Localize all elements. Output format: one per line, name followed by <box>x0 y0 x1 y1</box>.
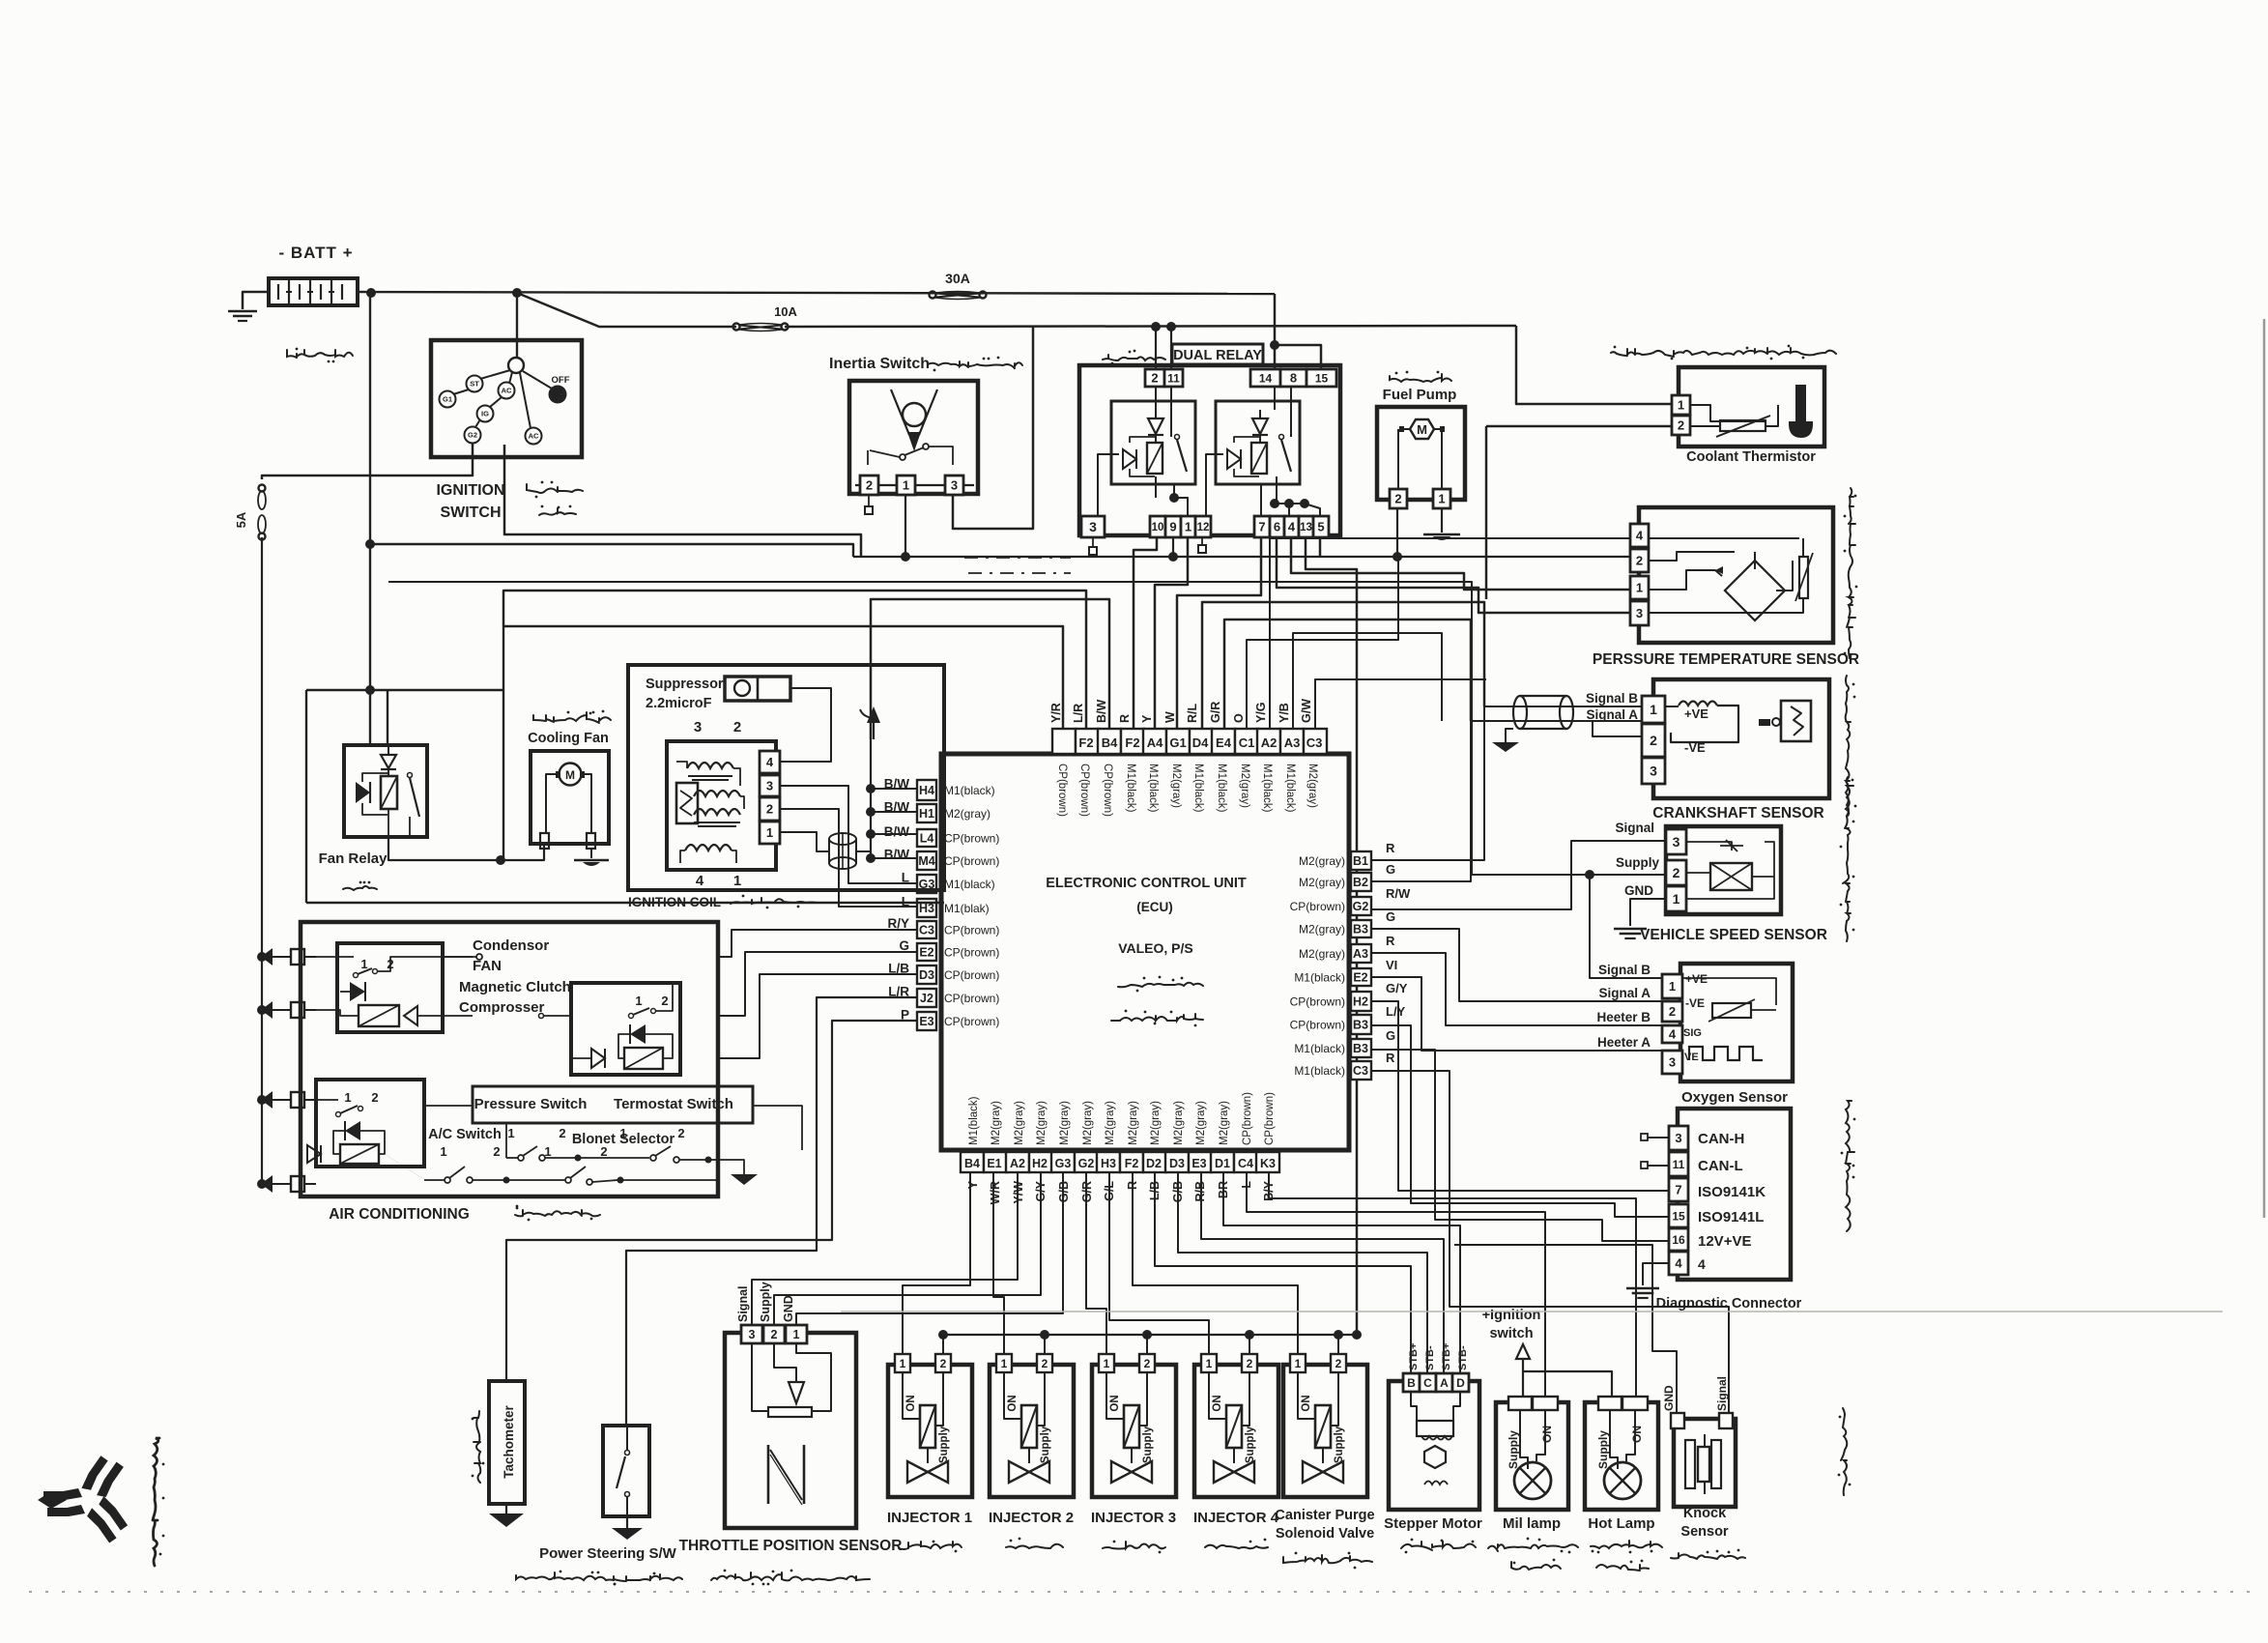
AC relay internals <box>307 1090 385 1164</box>
fan relay internals <box>356 745 419 837</box>
thermometer glyph <box>1789 385 1813 438</box>
pin 2 of crankshaft sensor <box>1642 724 1665 757</box>
svg-text:A4: A4 <box>1147 735 1163 750</box>
svg-text:B4: B4 <box>964 1157 980 1170</box>
svg-text:AC: AC <box>502 387 512 395</box>
svg-text:A: A <box>1440 1376 1449 1390</box>
svg-text:Supply: Supply <box>1507 1430 1520 1469</box>
svg-text:D4: D4 <box>1192 735 1209 750</box>
svg-text:2: 2 <box>866 478 873 493</box>
svg-text:O: O <box>1232 713 1246 723</box>
ECU right pin column <box>1351 851 1371 1080</box>
suppressor label <box>646 677 724 711</box>
wire A3 to oxygen heeter B <box>1371 953 1662 1025</box>
wire ECU C4 to mil lamp ON <box>1247 1172 1545 1397</box>
svg-text:2: 2 <box>1678 418 1684 433</box>
ECU right inner labels <box>1290 854 1345 1078</box>
ignition switch label <box>436 482 504 521</box>
ground tachometer <box>489 1504 524 1527</box>
svg-text:Comprosser: Comprosser <box>459 999 545 1016</box>
termostat contacts <box>578 1126 718 1164</box>
svg-text:SWITCH: SWITCH <box>440 504 501 521</box>
svg-text:M2(gray): M2(gray) <box>1306 764 1318 808</box>
pin 1 of coolant thermistor <box>1672 395 1690 415</box>
pins 10 9 1 12 of dual relay <box>1150 516 1211 537</box>
PT sensor label <box>1593 651 1859 668</box>
svg-text:B3: B3 <box>1353 1042 1368 1055</box>
canister label <box>1275 1508 1374 1542</box>
svg-text:-VE: -VE <box>1685 996 1705 1010</box>
wire main feed bus <box>853 556 1630 558</box>
svg-text:Signal B: Signal B <box>1598 963 1651 977</box>
wire AC condensor row to ECU R/Y <box>718 930 917 957</box>
terminal under inertia pin 2 <box>865 495 873 514</box>
svg-text:D1: D1 <box>1215 1157 1230 1170</box>
ECU electronic control unit box <box>941 754 1349 1150</box>
fan relay box <box>344 745 427 837</box>
crankshaft sensor box <box>1653 679 1829 798</box>
svg-text:M1(black): M1(black) <box>1284 764 1296 813</box>
svg-text:CP(brown): CP(brown) <box>1056 764 1068 817</box>
wire inertia pin1 to bus <box>904 495 906 557</box>
stepper motor pin strip BCAD <box>1403 1373 1469 1392</box>
node 10A pin11 <box>1166 322 1176 331</box>
node VSS supply branch <box>1585 870 1594 879</box>
svg-text:Cooling Fan: Cooling Fan <box>528 731 609 746</box>
wire dual pin9 to bus <box>1172 537 1174 557</box>
svg-text:2: 2 <box>661 994 668 1008</box>
persian label crank vertical <box>1846 676 1857 816</box>
TPS rotated labels <box>736 1282 795 1322</box>
svg-text:3: 3 <box>694 719 702 735</box>
svg-text:VEHICLE SPEED SENSOR: VEHICLE SPEED SENSOR <box>1640 927 1827 943</box>
wire G2 to VSS signal <box>1371 908 1571 910</box>
svg-text:ON: ON <box>1630 1426 1644 1443</box>
persian label VSS vertical <box>1840 777 1855 941</box>
wire ECU E4 to crank signal A <box>1224 620 1471 729</box>
svg-text:-VE: -VE <box>1684 740 1706 755</box>
svg-text:K3: K3 <box>1260 1157 1276 1170</box>
hot lamp label <box>1588 1515 1654 1532</box>
pin 1 of oxygen sensor <box>1662 974 1682 998</box>
wire B1 to crank <box>1371 706 1484 860</box>
svg-text:Mil lamp: Mil lamp <box>1503 1515 1561 1532</box>
svg-text:L/Y: L/Y <box>1386 1004 1406 1019</box>
svg-text:M2(gray): M2(gray) <box>1173 1101 1185 1145</box>
svg-text:CP(brown): CP(brown) <box>1264 1092 1276 1145</box>
wire fan relay to cooling fan <box>388 837 544 860</box>
wire inertia pins baseline <box>855 484 974 486</box>
svg-text:A2: A2 <box>1010 1157 1025 1170</box>
wire ECU D3 to stepper C <box>1178 1172 1427 1373</box>
svg-text:Heeter B: Heeter B <box>1596 1010 1651 1024</box>
stepper internals <box>1411 1392 1460 1484</box>
node fuel pump feed on bus <box>1392 552 1402 562</box>
AC bottom switch row <box>385 1144 718 1185</box>
svg-text:10A: 10A <box>774 304 797 319</box>
condensor fan labels <box>459 937 571 1016</box>
svg-text:Y/B: Y/B <box>1278 703 1291 723</box>
svg-text:Signal B: Signal B <box>1586 691 1638 706</box>
wire diag pin4 to ground <box>1626 1263 1669 1298</box>
svg-text:Stepper Motor: Stepper Motor <box>1384 1515 1482 1532</box>
inertia switch box <box>849 381 978 494</box>
persian label power steering <box>516 1571 682 1586</box>
wire B2 to crank2 <box>1371 721 1471 881</box>
svg-text:2: 2 <box>1151 371 1158 386</box>
svg-text:CP(brown): CP(brown) <box>944 1015 999 1028</box>
svg-text:ON: ON <box>1301 1395 1312 1411</box>
wire dual pin6 to PT sensor pin3 <box>1277 537 1630 613</box>
svg-text:M2(gray): M2(gray) <box>1299 854 1345 868</box>
wire 10A branch <box>517 293 1516 327</box>
ignition feed arrow <box>1516 1344 1530 1397</box>
svg-text:1: 1 <box>360 957 367 971</box>
svg-text:GND: GND <box>1662 1385 1676 1411</box>
wire ECU D2 to stepper B <box>1155 1172 1411 1373</box>
svg-text:C4: C4 <box>1238 1157 1253 1170</box>
ECU title text <box>1046 876 1247 891</box>
wire ECU D4 to crank signal B <box>1202 602 1484 729</box>
persian label ignition coil <box>731 895 817 909</box>
svg-text:2: 2 <box>493 1144 500 1159</box>
pin 1 of inertia switch <box>897 476 915 495</box>
svg-text:2: 2 <box>733 719 741 735</box>
power steering contacts <box>617 1426 630 1516</box>
svg-text:1: 1 <box>440 1144 446 1159</box>
svg-text:3: 3 <box>1089 519 1097 534</box>
svg-text:+VE: +VE <box>1684 706 1708 721</box>
svg-text:M1(black): M1(black) <box>1261 764 1273 813</box>
tachometer box <box>489 1381 525 1504</box>
svg-text:M2(gray): M2(gray) <box>1219 1101 1230 1145</box>
svg-text:IG: IG <box>481 410 489 418</box>
svg-text:R/W: R/W <box>1386 886 1411 901</box>
wire AC comprosser to ECU G <box>718 952 917 1016</box>
svg-text:R: R <box>1118 714 1132 723</box>
svg-text:E2: E2 <box>1353 971 1367 985</box>
svg-text:A2: A2 <box>1261 735 1278 750</box>
wire harness right vertical <box>1441 679 1443 721</box>
svg-text:F2: F2 <box>1078 735 1093 750</box>
wire coil pin1 to barrel <box>780 832 829 851</box>
pins 7 6 4 13 5 of dual relay <box>1254 516 1329 537</box>
svg-text:1: 1 <box>635 994 642 1008</box>
wire C3 to knock signal <box>1371 1071 1729 1413</box>
coil windings <box>676 762 744 863</box>
svg-text:CAN-L: CAN-L <box>1698 1158 1743 1174</box>
termostat switch label <box>614 1096 733 1112</box>
svg-text:switch: switch <box>1489 1326 1533 1341</box>
wire arrow feed ignition coil <box>860 706 880 739</box>
pins 2 11 of dual relay <box>1145 369 1183 387</box>
wire magnetic clutch to ECU L/B <box>718 974 917 1058</box>
svg-text:11: 11 <box>1167 371 1180 385</box>
diagnostic connector label <box>1656 1296 1802 1312</box>
svg-text:ELECTRONIC CONTROL UNIT: ELECTRONIC CONTROL UNIT <box>1046 876 1247 891</box>
svg-text:1: 1 <box>507 1126 514 1140</box>
wire ECU J2 to power steering <box>626 997 917 1426</box>
svg-text:2: 2 <box>677 1126 684 1140</box>
svg-text:Supply: Supply <box>1245 1426 1256 1463</box>
svg-text:THROTTLE POSITION SENSOR: THROTTLE POSITION SENSOR <box>679 1538 903 1554</box>
wire ECU A2 to TPS signal <box>752 1172 1018 1325</box>
ECU valeo text <box>1118 940 1193 956</box>
condensor fan terminal <box>443 954 571 1019</box>
svg-text:E3: E3 <box>919 1015 933 1028</box>
ignition coil numbers bottom <box>696 873 741 889</box>
ECU subtitle <box>1136 900 1173 914</box>
svg-text:1: 1 <box>544 1144 551 1159</box>
pin 3 of inertia switch <box>945 476 963 495</box>
svg-text:L4: L4 <box>920 832 934 846</box>
svg-text:C3: C3 <box>919 924 934 937</box>
crank pickup icon <box>1781 701 1811 741</box>
TPS label <box>679 1538 903 1554</box>
pin 2 of oxygen sensor <box>1662 1001 1682 1022</box>
thermistor symbol <box>1690 405 1778 437</box>
svg-text:2: 2 <box>1650 733 1657 748</box>
svg-text:Supply: Supply <box>1040 1426 1051 1463</box>
svg-text:Y: Y <box>966 1180 980 1189</box>
fuse 30A <box>930 271 987 300</box>
mil lamp box <box>1496 1402 1568 1510</box>
inertia switch label <box>829 356 930 372</box>
wires inside fuel pump <box>1398 429 1442 489</box>
coolant thermistor box <box>1679 367 1824 447</box>
wire dual pin10 to ECU <box>1134 537 1157 729</box>
wire to coolant pin2 <box>1486 426 1672 599</box>
svg-text:C3: C3 <box>1353 1064 1368 1078</box>
svg-text:D3: D3 <box>1169 1157 1185 1170</box>
svg-text:7: 7 <box>1258 520 1265 534</box>
persian ECU line2 <box>1111 1010 1203 1027</box>
svg-text:1: 1 <box>1438 492 1445 506</box>
svg-text:2: 2 <box>1394 492 1401 506</box>
svg-text:2: 2 <box>1247 1357 1253 1370</box>
svg-text:G/Y: G/Y <box>1386 981 1408 995</box>
svg-text:1: 1 <box>1678 398 1684 413</box>
pin 1 of fuel pump <box>1433 489 1450 508</box>
svg-text:Inertia Switch: Inertia Switch <box>829 356 930 372</box>
persian label inertia switch <box>928 357 1022 372</box>
svg-text:CP(brown): CP(brown) <box>1290 995 1345 1009</box>
svg-text:2: 2 <box>1144 1357 1151 1370</box>
svg-text:Condensor: Condensor <box>473 937 549 954</box>
persian label fan relay <box>343 881 377 890</box>
persian label knock <box>1671 1549 1745 1559</box>
stepper motor box <box>1389 1381 1479 1510</box>
svg-text:C: C <box>1423 1376 1432 1390</box>
wire ECU A3 up <box>1293 633 1442 729</box>
wire ECU G3 to TPS gnd <box>796 1172 1063 1325</box>
svg-text:1: 1 <box>733 873 741 889</box>
fuel pump label <box>1383 387 1457 403</box>
svg-text:9: 9 <box>1169 520 1176 534</box>
ignition switch contacts <box>440 358 570 445</box>
svg-text:E3: E3 <box>1191 1157 1206 1170</box>
wire crank pin2 internal <box>1593 721 1642 736</box>
svg-text:W/R: W/R <box>989 1181 1002 1204</box>
relay coil assembly left <box>1111 401 1195 484</box>
svg-text:B: B <box>1407 1376 1416 1390</box>
svg-text:G2: G2 <box>1353 900 1369 913</box>
scan dash artifact upper <box>964 557 1071 559</box>
svg-text:B/W: B/W <box>1095 700 1108 724</box>
svg-text:M: M <box>565 768 575 782</box>
svg-text:ON: ON <box>905 1395 917 1411</box>
terminal under dual pin3 <box>1089 537 1097 555</box>
svg-text:M2(gray): M2(gray) <box>1170 764 1182 808</box>
persian label hot lamp <box>1591 1541 1662 1571</box>
svg-text:Suppressor: Suppressor <box>646 677 724 692</box>
wire B3a to oxygen signal A <box>1371 929 1662 1001</box>
svg-text:M1(black): M1(black) <box>1294 971 1345 985</box>
INJECTOR 4 internals <box>1194 1354 1278 1497</box>
svg-text:M1(black): M1(black) <box>968 1096 980 1145</box>
wire dual pin5 to fuel pump <box>1319 537 1322 557</box>
svg-text:1: 1 <box>766 825 773 840</box>
AC switch label <box>428 1127 502 1142</box>
VSS labels <box>1615 821 1659 898</box>
svg-text:12V+VE: 12V+VE <box>1698 1233 1751 1250</box>
svg-text:G: G <box>899 938 909 953</box>
svg-text:CP(brown): CP(brown) <box>1242 1092 1253 1145</box>
wire AC switch row feed <box>505 1123 507 1158</box>
node after battery <box>366 288 376 298</box>
svg-text:Coolant Thermistor: Coolant Thermistor <box>1686 449 1816 465</box>
wire VSS gnd <box>1614 899 1666 938</box>
persian label tachometer vertical <box>472 1411 485 1483</box>
oxygen sensor box <box>1680 964 1793 1081</box>
pin 2 of fuel pump <box>1390 489 1407 508</box>
svg-text:L/R: L/R <box>1072 704 1085 723</box>
wire ECU E1 to injector2 <box>993 1172 1004 1354</box>
wire inertia pin3 up to 10A wire <box>953 327 1033 529</box>
pin 2 of PT sensor <box>1630 549 1649 572</box>
svg-text:15: 15 <box>1672 1209 1685 1223</box>
svg-text:M2(gray): M2(gray) <box>1082 1101 1094 1145</box>
cooling fan label <box>528 731 609 746</box>
wire ignition AC pin to main bus <box>504 445 861 557</box>
svg-text:GND: GND <box>782 1295 795 1322</box>
svg-text:Signal A: Signal A <box>1586 707 1638 722</box>
svg-text:2: 2 <box>1636 554 1643 568</box>
wire crank signal B <box>1484 706 1642 707</box>
wire 30A down to dual relay pin8 <box>1275 294 1321 369</box>
svg-text:H1: H1 <box>919 807 934 821</box>
svg-text:M2(gray): M2(gray) <box>944 807 990 821</box>
wire coil pin2 to ECU H3 <box>780 809 917 907</box>
svg-text:3: 3 <box>1669 1055 1676 1070</box>
svg-text:B/W: B/W <box>884 848 910 862</box>
svg-text:Signal: Signal <box>736 1285 750 1322</box>
injector labels <box>887 1510 1279 1526</box>
magnetic clutch internals <box>571 983 673 1069</box>
svg-text:M2(gray): M2(gray) <box>1299 947 1345 961</box>
coil condenser <box>676 783 698 823</box>
pin 1 of VSS <box>1666 886 1686 911</box>
ignition coil outer box <box>628 665 944 890</box>
svg-text:6: 6 <box>1274 520 1280 534</box>
svg-text:R/Y: R/Y <box>887 916 909 931</box>
svg-text:1: 1 <box>1295 1357 1302 1370</box>
svg-text:STB-: STB- <box>1457 1345 1469 1370</box>
svg-text:M2(gray): M2(gray) <box>1036 1101 1048 1145</box>
stub wires CAN <box>1641 1134 1669 1168</box>
svg-text:Supply: Supply <box>1596 1430 1610 1469</box>
svg-text:1: 1 <box>793 1328 800 1341</box>
ignition switch box <box>431 340 582 457</box>
AC left terminal arrows <box>261 948 316 1193</box>
svg-text:M2(gray): M2(gray) <box>1195 1101 1207 1145</box>
svg-text:M2(gray): M2(gray) <box>1128 1101 1139 1145</box>
TPS pin 3 <box>741 1325 762 1343</box>
svg-text:Pressure Switch: Pressure Switch <box>474 1096 588 1112</box>
wire ECU E3 to stepper A <box>1201 1172 1444 1373</box>
svg-text:8: 8 <box>1290 371 1297 386</box>
svg-text:CAN-H: CAN-H <box>1698 1131 1744 1147</box>
node 30A at dual relay <box>1270 340 1279 350</box>
ground fuel pump pin1 <box>1423 508 1460 540</box>
INJECTOR 2 internals <box>990 1354 1074 1497</box>
pin 3 of VSS <box>1666 829 1686 854</box>
svg-text:2: 2 <box>766 802 773 817</box>
wire E2 to oxygen heeter A <box>1371 977 1662 1051</box>
svg-text:G2: G2 <box>1078 1157 1095 1170</box>
node 10A pin2 <box>1151 322 1161 331</box>
pin 3 of dual relay <box>1081 516 1105 537</box>
wire dual pin7 to ECU <box>1177 537 1261 729</box>
ECU bottom inner pin type labels <box>968 1092 1276 1145</box>
svg-text:2: 2 <box>771 1328 778 1341</box>
svg-text:VI: VI <box>1386 958 1397 972</box>
wire ECU A2 to PT pin4 <box>1270 538 1630 729</box>
power steering label <box>539 1545 677 1562</box>
svg-text:13: 13 <box>1300 522 1312 533</box>
wire B3c to 12V+VE <box>1371 1050 1669 1241</box>
svg-text:IGNITION: IGNITION <box>436 482 504 499</box>
svg-text:2: 2 <box>1042 1357 1048 1370</box>
svg-text:F2: F2 <box>1125 735 1139 750</box>
ECU top inner pin type labels <box>1056 764 1318 817</box>
wire knock gnd up <box>1454 1245 1677 1413</box>
svg-text:30A: 30A <box>945 271 970 286</box>
pin 2 of VSS <box>1666 860 1686 885</box>
svg-text:Blonet Selector: Blonet Selector <box>572 1132 675 1147</box>
svg-text:7: 7 <box>1675 1183 1681 1197</box>
pin 4 of diag connector <box>1669 1252 1688 1275</box>
cooling fan persian label <box>533 710 611 723</box>
svg-text:M4: M4 <box>918 854 934 868</box>
svg-text:A/C Switch: A/C Switch <box>428 1127 502 1142</box>
svg-text:2: 2 <box>940 1357 947 1370</box>
svg-text:CP(brown): CP(brown) <box>944 968 999 982</box>
svg-text:Supply: Supply <box>1142 1426 1154 1463</box>
svg-text:B1: B1 <box>1353 854 1368 868</box>
signal labels crankshaft <box>1586 691 1638 722</box>
svg-text:INJECTOR 4: INJECTOR 4 <box>1193 1510 1279 1526</box>
knock GND Signal labels <box>1662 1376 1729 1411</box>
svg-text:1: 1 <box>1669 979 1676 994</box>
svg-text:INJECTOR 1: INJECTOR 1 <box>887 1510 972 1526</box>
stepper motor label <box>1384 1515 1482 1532</box>
wire ECU E3 to tachometer <box>506 1021 917 1381</box>
wire ECU top F2 left <box>503 591 1086 729</box>
svg-text:M1(black): M1(black) <box>1216 764 1227 813</box>
svg-text:1: 1 <box>344 1090 351 1105</box>
TPS pin 1 <box>786 1325 807 1343</box>
